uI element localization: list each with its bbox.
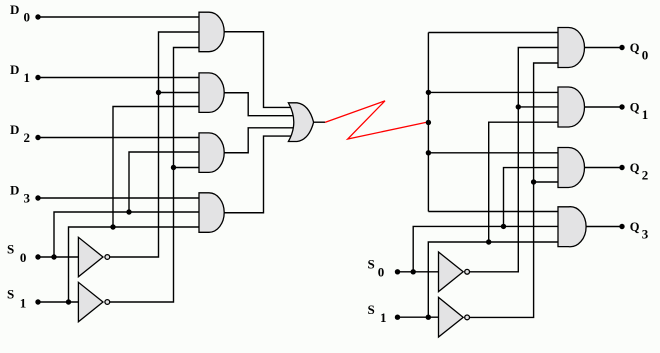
svg-text:D: D: [10, 62, 19, 77]
svg-text:Q: Q: [630, 101, 640, 115]
svg-text:3: 3: [24, 191, 31, 206]
svg-text:S: S: [368, 302, 375, 317]
svg-text:0: 0: [24, 10, 31, 25]
svg-text:Q: Q: [630, 41, 640, 55]
svg-text:Q: Q: [630, 161, 640, 175]
svg-text:Q: Q: [630, 220, 640, 234]
svg-text:1: 1: [24, 70, 31, 85]
svg-text:2: 2: [642, 167, 649, 182]
svg-text:2: 2: [24, 130, 31, 145]
svg-text:D: D: [10, 183, 19, 198]
svg-text:S: S: [7, 242, 14, 257]
svg-text:0: 0: [642, 47, 649, 62]
svg-text:D: D: [10, 2, 19, 17]
svg-text:0: 0: [378, 264, 385, 279]
svg-text:0: 0: [20, 250, 27, 265]
svg-text:1: 1: [642, 107, 649, 122]
svg-text:3: 3: [642, 226, 649, 241]
svg-text:S: S: [7, 287, 14, 302]
svg-text:D: D: [10, 122, 19, 137]
svg-text:1: 1: [20, 296, 27, 311]
svg-text:S: S: [368, 257, 375, 272]
svg-text:1: 1: [380, 310, 387, 325]
